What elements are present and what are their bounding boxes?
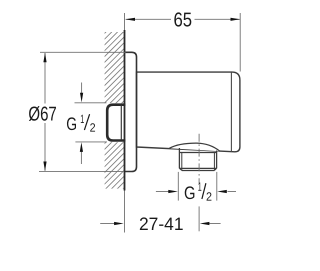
svg-text:1: 1 <box>80 112 84 126</box>
svg-text:G: G <box>184 183 196 203</box>
svg-text:27-41: 27-41 <box>139 214 184 234</box>
27-41 dimension (bottom) <box>100 223 220 225</box>
G 1/2 inlet dimension (left) <box>75 83 108 165</box>
Ø67 dimension (left) <box>39 52 126 171</box>
svg-text:Ø67: Ø67 <box>28 104 56 126</box>
outlet nipple G1/2 <box>179 148 216 171</box>
extension below (27-41 dim) <box>124 191 126 233</box>
G 1/2 outlet dimension (bottom) <box>156 172 236 201</box>
flange plate <box>125 52 137 171</box>
outlet fairing dome <box>169 143 220 151</box>
svg-text:1: 1 <box>198 180 202 194</box>
svg-text:2: 2 <box>206 190 212 204</box>
svg-text:65: 65 <box>173 9 192 31</box>
main body <box>137 72 240 152</box>
centerline of outlet <box>198 134 200 183</box>
wall face line <box>124 30 126 191</box>
front cap seam <box>230 72 232 151</box>
svg-text:G: G <box>66 114 77 134</box>
inlet socket tube behind wall <box>107 105 125 141</box>
svg-text:2: 2 <box>90 121 96 135</box>
65 dimension (top) <box>126 13 241 72</box>
extension above (65 dim) <box>124 13 126 30</box>
